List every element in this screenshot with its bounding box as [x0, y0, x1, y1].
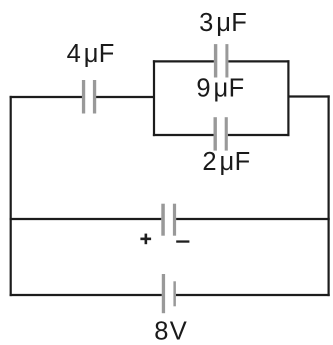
battery V1 long plate — [162, 274, 165, 313]
wire left vertical — [10, 96, 12, 296]
svg-text:4μF: 4μF — [67, 40, 115, 68]
wire bottom right segment — [176, 294, 330, 296]
wire right vertical — [328, 95, 330, 296]
battery V1 short plate — [173, 281, 176, 306]
label minus — [176, 240, 189, 242]
label plus — [140, 238, 151, 241]
wire right horizontal — [288, 95, 329, 97]
svg-text:3μF: 3μF — [199, 9, 247, 37]
capacitor C4 middle plates — [161, 204, 165, 236]
wire box right edge — [287, 60, 289, 136]
wire bottom left segment — [10, 294, 162, 296]
wire top-left segment — [10, 96, 82, 98]
wire box left edge — [153, 60, 155, 136]
wire middle right segment — [176, 218, 330, 220]
wire box top edge left part — [153, 60, 214, 62]
wire box top edge right part — [228, 60, 289, 62]
wire box bottom edge right part — [228, 134, 290, 136]
capacitor C2 3uF plates — [214, 44, 217, 77]
svg-text:9μF: 9μF — [196, 74, 244, 102]
wire top segment to box — [96, 96, 155, 98]
wire middle left segment — [10, 218, 162, 220]
capacitor C1 4uF plates — [82, 80, 85, 114]
wire box bottom edge left part — [153, 134, 214, 136]
capacitor C3 2uF plates — [214, 117, 217, 150]
svg-text:2μF: 2μF — [202, 148, 250, 176]
svg-text:8V: 8V — [154, 317, 188, 345]
